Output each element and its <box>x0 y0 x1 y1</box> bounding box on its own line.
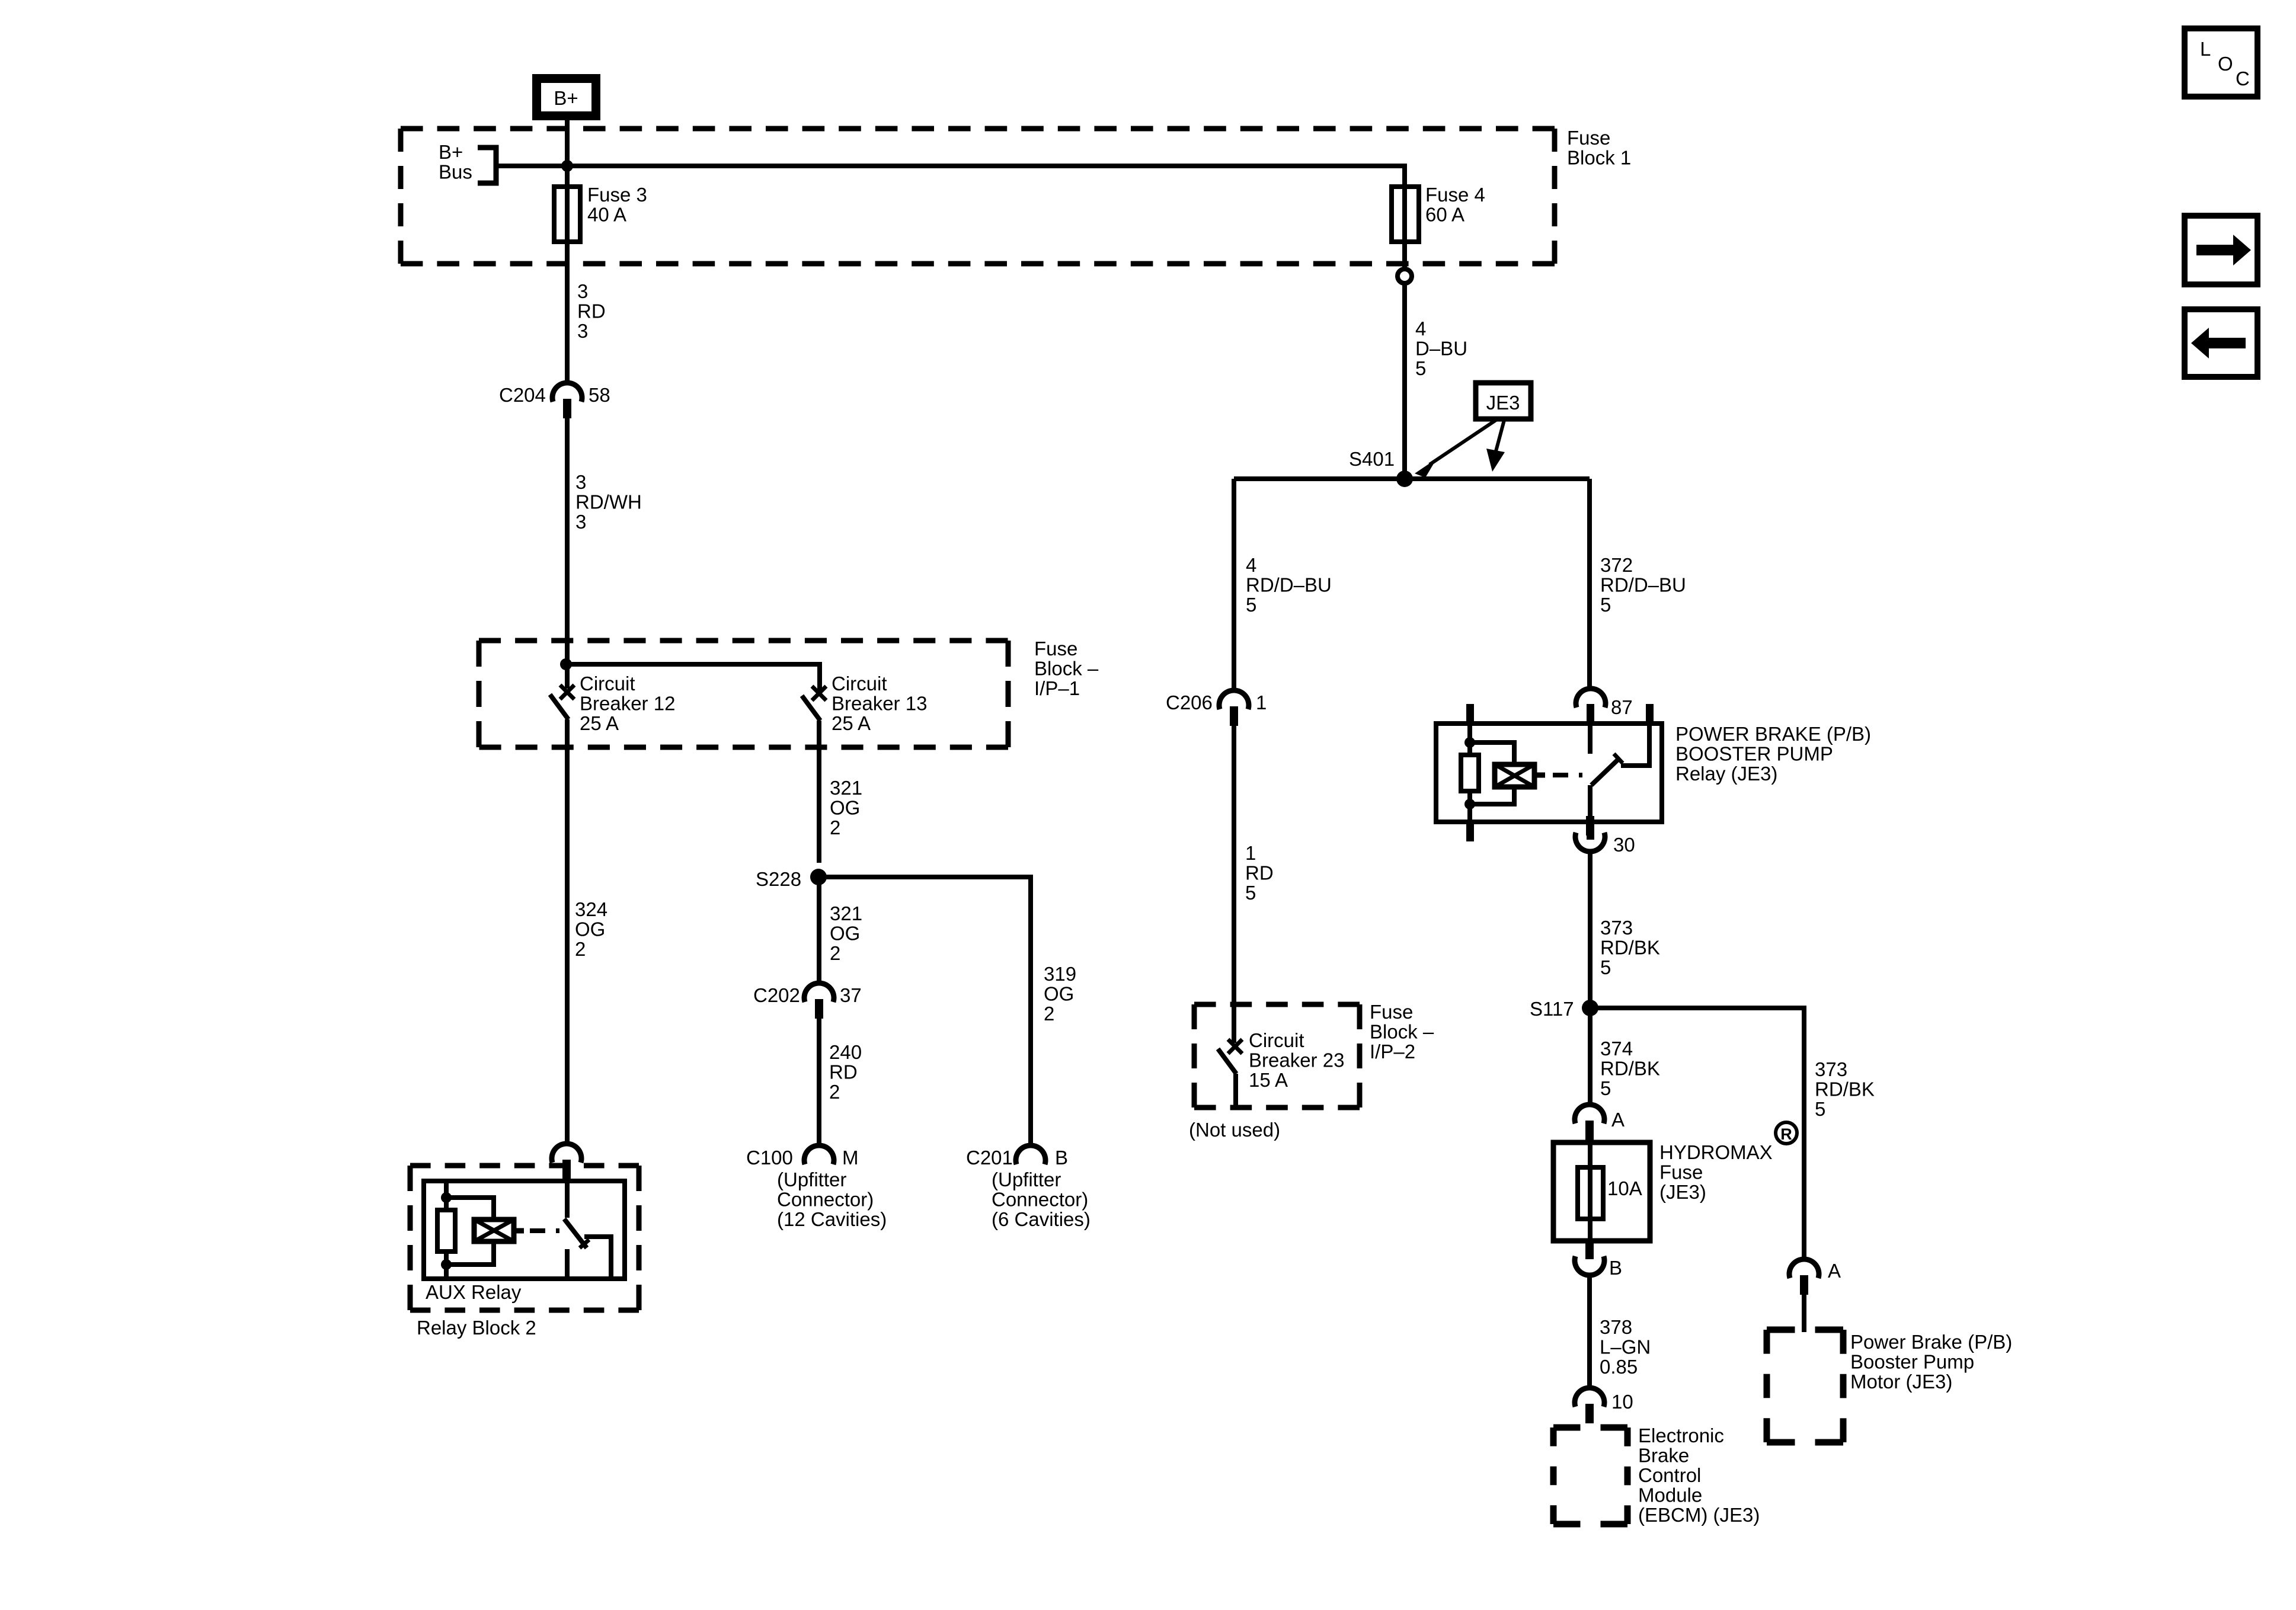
svg-text:C204: C204 <box>499 384 546 406</box>
svg-text:AUX Relay: AUX Relay <box>426 1281 522 1303</box>
relay switch blade tick <box>1614 754 1623 763</box>
connector B hydromax <box>1575 1240 1604 1275</box>
connector C206 pin 1 <box>1219 690 1249 726</box>
svg-text:C201: C201 <box>966 1147 1013 1169</box>
wire B+ box to Fuse 3 <box>565 120 570 187</box>
hydromax fuse outer box <box>1553 1142 1650 1241</box>
arrow JE3 to S401 <box>1415 420 1496 478</box>
wire B to 10 <box>1587 1275 1592 1388</box>
wire through hydromax fuse <box>1588 1142 1593 1241</box>
callout box JE3 <box>1476 383 1531 419</box>
wire S117 to motor branch <box>1590 1008 1804 1260</box>
svg-text:S228: S228 <box>756 868 801 890</box>
svg-text:87: 87 <box>1611 696 1633 718</box>
svg-text:A: A <box>1828 1260 1841 1282</box>
wire S401 right branch down <box>1587 479 1592 689</box>
svg-text:B: B <box>1055 1147 1068 1169</box>
wire AUX coil loop top <box>446 1198 494 1219</box>
relay switch blade <box>1591 758 1620 785</box>
junction AUX coil top <box>441 1192 452 1203</box>
dashed actuator link relay <box>1553 773 1582 777</box>
wire A to motor box <box>1802 1295 1806 1332</box>
power symbol B+ <box>532 74 600 120</box>
svg-text:37: 37 <box>840 984 862 1006</box>
node S117 splice <box>1582 1000 1598 1016</box>
node S228 splice <box>810 869 827 885</box>
nav box arrow left <box>2185 309 2257 377</box>
fuse block I/P-2 dashed box <box>1194 1004 1360 1108</box>
connector A hydromax <box>1575 1105 1604 1140</box>
svg-text:10A: 10A <box>1607 1177 1642 1199</box>
wire relay switch to pin 87b <box>1621 724 1649 766</box>
junction AUX coil bottom <box>441 1259 452 1270</box>
AUX switch blade tick <box>580 1240 589 1248</box>
relay pin top right <box>1646 704 1654 724</box>
junction bus/fuse3 <box>561 160 573 172</box>
wire relay blade to pin 30 <box>1588 785 1593 822</box>
svg-text:A: A <box>1611 1109 1625 1131</box>
wire C206 to breaker 23 <box>1232 725 1236 1043</box>
AUX switch blade <box>564 1219 587 1248</box>
connector 30 <box>1575 816 1605 852</box>
wire S117 down to hydromax fuse <box>1588 1008 1593 1106</box>
svg-text:S117: S117 <box>1530 998 1574 1020</box>
AUX relay coil left vertical <box>444 1181 449 1279</box>
relay block 2 dashed box <box>410 1166 639 1310</box>
wire fuse3 to C204 <box>565 242 570 384</box>
svg-text:58: 58 <box>589 384 610 406</box>
wire S228 to C202 <box>817 877 821 984</box>
junction relay coil bottom <box>1464 799 1475 809</box>
svg-text:S401: S401 <box>1349 448 1395 470</box>
wire C204 to fuse block IP1 <box>565 418 570 689</box>
wire AUX switch lower stub <box>565 1249 570 1279</box>
relay coil left vertical <box>1467 724 1472 822</box>
svg-text:C202: C202 <box>753 984 800 1006</box>
svg-text:Relay Block 2: Relay Block 2 <box>417 1317 536 1339</box>
EBCM dashed box <box>1553 1427 1627 1524</box>
node B+ Bus bracket <box>478 148 496 183</box>
fuse block I/P-1 dashed box <box>479 641 1008 747</box>
svg-text:1: 1 <box>1256 692 1267 713</box>
registered trademark symbol <box>1776 1122 1797 1144</box>
resistor in relay <box>1461 755 1479 791</box>
svg-text:L: L <box>2200 38 2211 60</box>
wire S401 left branch down <box>1232 479 1236 691</box>
wire relay coil loop top <box>1470 742 1514 764</box>
connector A motor <box>1789 1259 1819 1295</box>
svg-text:C206: C206 <box>1166 692 1213 713</box>
svg-text:M: M <box>842 1147 859 1169</box>
coil symbol relay <box>1495 764 1534 787</box>
motor dashed box <box>1767 1330 1843 1442</box>
dashed actuator link AUX <box>530 1228 559 1233</box>
svg-text:C100: C100 <box>746 1147 793 1169</box>
wire AUX switch to box via L <box>584 1237 611 1276</box>
wire relay coil stub right <box>1534 773 1545 778</box>
wire AUX coil stub right <box>514 1228 524 1234</box>
relay pin 30 <box>1587 822 1594 840</box>
relay AUX Relay box <box>424 1181 625 1279</box>
resistor in AUX relay <box>437 1210 455 1251</box>
fuse Fuse 4 60 A <box>1392 187 1419 242</box>
svg-text:C: C <box>2236 68 2250 89</box>
connector C100 terminal M <box>804 1145 834 1164</box>
terminal circle at fuse block 1 edge <box>1398 269 1412 283</box>
wire breaker13 to S228 <box>817 721 821 863</box>
wire breaker12 to AUX relay <box>565 719 570 1144</box>
wire B+ bus horizontal <box>496 166 1405 187</box>
node S401 splice <box>1396 470 1413 487</box>
connector C204 pin 58 <box>552 383 582 418</box>
junction relay coil top <box>1464 737 1475 748</box>
relay POWER BRAKE box <box>1436 724 1662 822</box>
wire fuse4 to terminal circle <box>1402 242 1407 269</box>
fuse element 10A <box>1578 1167 1603 1219</box>
junction inside IP1 <box>560 658 572 670</box>
fuse block 1 dashed box <box>401 129 1555 264</box>
wire 30 to S117 <box>1588 852 1593 1000</box>
wire AUX coil loop bottom <box>446 1241 494 1265</box>
relay switch fixed contact <box>1588 724 1593 754</box>
wire circle to S401 <box>1402 283 1407 479</box>
relay pin bottom left <box>1466 822 1474 841</box>
AUX switch fixed contact <box>565 1181 570 1218</box>
wire branch to breaker 13 <box>566 664 820 692</box>
connector at AUX relay <box>552 1144 581 1179</box>
connector C202 pin 37 <box>804 983 834 1019</box>
svg-text:R: R <box>1780 1125 1792 1143</box>
connector 10 EBCM <box>1575 1388 1604 1423</box>
relay pin top left <box>1466 704 1474 724</box>
circuit breaker 12 25A <box>550 685 574 719</box>
circuit breaker 13 25A <box>802 686 826 721</box>
coil symbol AUX relay <box>474 1219 514 1241</box>
circuit breaker 23 15A <box>1218 1039 1242 1108</box>
relay pin 87 <box>1587 704 1594 724</box>
svg-text:B+: B+ <box>554 87 578 109</box>
wire C202 to C100 <box>817 1019 821 1146</box>
wire S401 horizontal <box>1234 476 1590 481</box>
wire S228 to C201 branch <box>818 877 1031 1146</box>
fuse Fuse 3 40 A <box>554 187 580 242</box>
arrow JE3 to wire <box>1486 420 1505 472</box>
nav box arrow right <box>2185 216 2257 284</box>
svg-text:30: 30 <box>1613 834 1635 856</box>
wire relay coil loop bottom <box>1470 787 1514 804</box>
svg-text:JE3: JE3 <box>1486 392 1520 414</box>
svg-text:10: 10 <box>1611 1391 1633 1413</box>
svg-text:O: O <box>2218 53 2233 75</box>
connector 87 <box>1576 689 1606 708</box>
svg-text:B: B <box>1609 1257 1622 1279</box>
svg-text:(Not used): (Not used) <box>1189 1119 1280 1141</box>
connector C201 terminal B <box>1016 1145 1045 1164</box>
LOC reference box <box>2185 28 2257 97</box>
